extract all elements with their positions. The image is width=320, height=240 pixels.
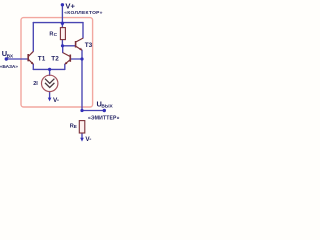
svg-text:2I: 2I: [33, 81, 38, 87]
svg-text:V-: V-: [53, 97, 59, 104]
svg-text:V+: V+: [65, 2, 75, 11]
svg-text:T1: T1: [38, 56, 46, 63]
svg-text:E: E: [74, 124, 77, 129]
svg-text:V-: V-: [85, 136, 91, 143]
svg-text:«КОЛЛЕКТОР»: «КОЛЛЕКТОР»: [64, 10, 103, 16]
svg-text:T2: T2: [51, 55, 59, 62]
svg-text:«БАЗА»: «БАЗА»: [0, 64, 18, 70]
svg-text:C: C: [54, 32, 58, 38]
svg-text:ВХ: ВХ: [7, 53, 14, 59]
svg-text:T3: T3: [85, 42, 93, 49]
svg-text:«ЭМИТТЕР»: «ЭМИТТЕР»: [88, 116, 120, 122]
svg-text:ВЫХ: ВЫХ: [101, 104, 113, 110]
